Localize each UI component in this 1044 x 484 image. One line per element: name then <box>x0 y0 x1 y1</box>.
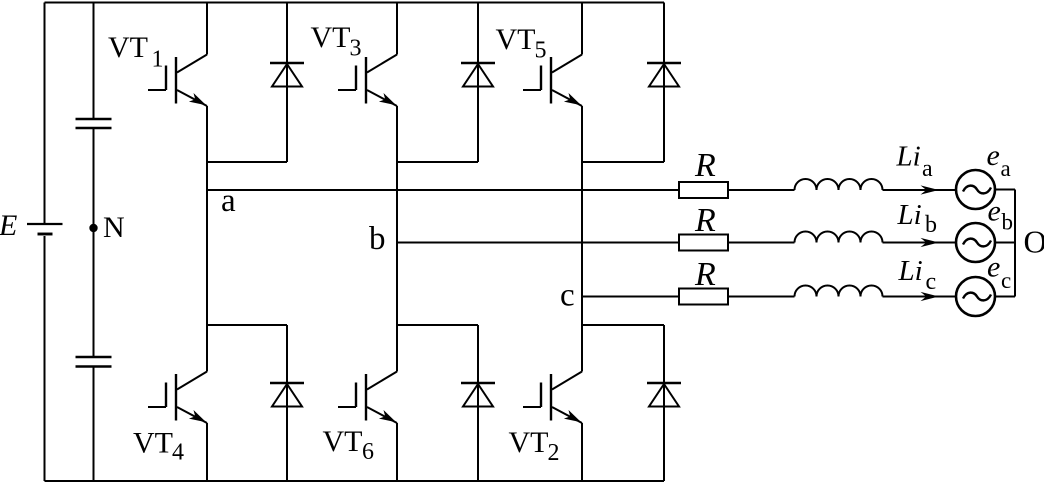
wire source e_a to neutral bus <box>995 189 1015 191</box>
diode VD6 <box>461 325 495 481</box>
svg-text:E: E <box>0 209 17 242</box>
AC source e_a <box>956 170 995 209</box>
wire source e_c to neutral bus <box>995 296 1015 298</box>
svg-text:5: 5 <box>535 38 547 64</box>
wire neutral bus O <box>1014 190 1016 297</box>
wire bottom DC bus <box>45 480 665 482</box>
wire lower connector leg a <box>207 324 287 326</box>
svg-text:R: R <box>694 256 716 293</box>
svg-text:b: b <box>369 221 386 257</box>
wire top bus to collector VT1 <box>206 3 208 55</box>
svg-text:e: e <box>987 251 1000 284</box>
resistor R phase a <box>679 182 728 198</box>
svg-text:Li: Li <box>896 141 921 173</box>
node N <box>89 224 97 232</box>
svg-text:c: c <box>560 278 575 314</box>
svg-text:VT: VT <box>496 23 536 56</box>
AC source e_c <box>956 277 995 316</box>
wire R to inductor phase a <box>728 189 795 191</box>
wire source e_b to neutral bus <box>995 242 1015 244</box>
wire upper connector leg c <box>582 161 664 163</box>
resistor R phase c <box>679 289 728 305</box>
wire emitter VT4 to bottom bus <box>206 423 208 481</box>
wire inductor to source e_a <box>883 189 957 191</box>
wire top bus to collector VT3 <box>396 3 398 55</box>
svg-text:Li: Li <box>897 199 922 231</box>
wire upper connector leg a <box>207 161 287 163</box>
diode VD1 <box>270 3 304 163</box>
svg-text:c: c <box>1001 268 1011 293</box>
wire lower connector leg c <box>582 324 664 326</box>
svg-text:c: c <box>926 269 937 295</box>
svg-text:a: a <box>221 183 236 219</box>
svg-text:4: 4 <box>172 440 184 466</box>
capacitor C2 <box>76 357 112 367</box>
wire capacitor branch bottom lead <box>93 368 95 482</box>
wire node b to collector VT6 <box>396 243 398 372</box>
current arrow i_a <box>921 185 939 194</box>
transistor VT1 <box>148 55 207 107</box>
diode VD4 <box>270 325 304 481</box>
inductor L phase a <box>795 179 883 190</box>
svg-text:b: b <box>925 212 937 238</box>
svg-text:N: N <box>103 211 125 244</box>
svg-text:e: e <box>988 195 1001 228</box>
transistor VT3 <box>338 55 397 107</box>
capacitor C1 <box>76 119 112 128</box>
wire emitter VT6 to bottom bus <box>396 423 398 481</box>
wire capacitor branch middle lead <box>93 129 95 356</box>
svg-text:VT: VT <box>509 426 549 459</box>
svg-text:R: R <box>694 147 716 184</box>
svg-text:6: 6 <box>362 439 374 465</box>
wire inductor to source e_b <box>883 242 957 244</box>
svg-text:1: 1 <box>152 47 164 73</box>
transistor VT6 <box>338 372 397 424</box>
transistor VT4 <box>148 372 207 424</box>
inductor L phase c <box>795 286 883 297</box>
svg-text:VT: VT <box>323 425 363 458</box>
wire emitter VT1 to node a <box>206 106 208 190</box>
transistor VT2 <box>523 372 582 424</box>
svg-text:e: e <box>987 139 1000 172</box>
wire battery bottom lead <box>44 236 46 481</box>
wire R to inductor phase b <box>728 242 795 244</box>
svg-text:b: b <box>1002 210 1014 235</box>
wire inductor to source e_c <box>883 296 957 298</box>
svg-text:VT: VT <box>108 31 148 64</box>
svg-text:Li: Li <box>898 255 923 287</box>
svg-text:O: O <box>1024 223 1044 259</box>
svg-text:VT: VT <box>311 21 351 54</box>
wire node c to collector VT2 <box>581 297 583 372</box>
wire top DC bus <box>45 2 665 4</box>
svg-text:2: 2 <box>548 440 560 466</box>
svg-text:VT: VT <box>133 427 173 460</box>
wire lower connector leg b <box>397 324 478 326</box>
wire phase a output <box>207 189 679 191</box>
wire emitter VT3 to node b <box>396 106 398 243</box>
wire battery top lead <box>44 3 46 224</box>
AC source e_b <box>956 223 995 262</box>
wire capacitor branch top lead <box>93 3 95 119</box>
transistor VT5 <box>523 55 582 107</box>
svg-text:R: R <box>694 202 716 239</box>
wire emitter VT2 to bottom bus <box>581 423 583 481</box>
wire emitter VT5 to node c <box>581 106 583 297</box>
svg-text:3: 3 <box>350 36 362 62</box>
battery E <box>27 224 63 234</box>
wire node a to collector VT4 <box>206 190 208 372</box>
inductor L phase b <box>795 232 883 243</box>
diode VD5 <box>647 3 681 163</box>
wire upper connector leg b <box>397 161 478 163</box>
resistor R phase b <box>679 235 728 251</box>
current arrow i_b <box>921 238 939 247</box>
diode VD3 <box>461 3 495 163</box>
wire R to inductor phase c <box>728 296 795 298</box>
current arrow i_c <box>921 292 939 301</box>
wire phase c output <box>582 296 679 298</box>
svg-text:a: a <box>922 156 933 182</box>
diode VD2 <box>647 325 681 481</box>
wire phase b output <box>397 242 679 244</box>
svg-text:a: a <box>1001 156 1011 181</box>
wire top bus to collector VT5 <box>581 3 583 55</box>
